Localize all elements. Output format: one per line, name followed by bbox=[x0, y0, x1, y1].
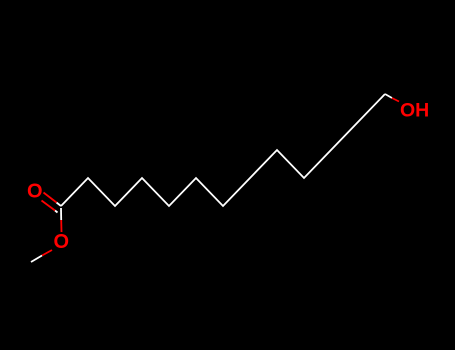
svg-text:O: O bbox=[27, 181, 43, 203]
svg-text:O: O bbox=[54, 231, 70, 253]
svg-text:OH: OH bbox=[400, 100, 429, 122]
